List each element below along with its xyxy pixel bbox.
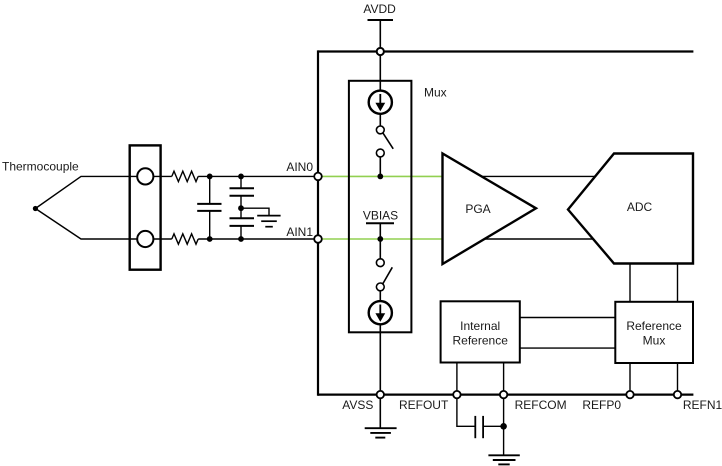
svg-text:REFN1: REFN1	[683, 398, 722, 412]
svg-text:AIN0: AIN0	[286, 160, 313, 174]
wire terminal to resistor R2	[153, 238, 171, 240]
wire AIN1 green (AIN1 pin to PGA input)	[320, 238, 443, 240]
wire ADC to Reference Mux left	[629, 264, 631, 303]
power symbol VBIAS	[366, 223, 394, 239]
svg-text:Mux: Mux	[424, 86, 447, 100]
wire top rail AVDD	[318, 50, 693, 52]
node thermocouple junction	[33, 206, 38, 211]
block Internal Reference	[441, 301, 520, 362]
svg-text:Mux: Mux	[643, 334, 666, 348]
wire REFCOM pin	[503, 363, 505, 395]
pin AVSS	[377, 391, 384, 398]
node R2/C1 junction	[207, 236, 213, 242]
svg-text:Reference: Reference	[453, 334, 509, 348]
wire PGA output bottom to ADC	[460, 238, 640, 240]
ground AVSS	[365, 428, 397, 437]
svg-text:ADC: ADC	[627, 200, 653, 214]
wire midpoint to ground	[241, 208, 269, 215]
svg-text:VBIAS: VBIAS	[363, 208, 398, 222]
svg-text:AIN1: AIN1	[286, 225, 313, 239]
ground filter midpoint	[257, 216, 280, 227]
current source I1 (burnout, top)	[369, 91, 392, 114]
current source I2 (burnout, bottom)	[369, 301, 392, 324]
label Internal Reference	[453, 319, 509, 348]
capacitor C3 (common-mode bottom)	[230, 208, 255, 239]
svg-text:REFP0: REFP0	[582, 398, 621, 412]
resistor R1 (AIN0 line)	[172, 171, 198, 181]
power symbol AVDD	[368, 20, 394, 91]
capacitor C1 (differential)	[197, 176, 221, 239]
svg-text:Reference: Reference	[626, 319, 682, 333]
wire R1 to AIN0 pin	[198, 175, 314, 177]
node VBIAS to AIN1	[377, 236, 383, 242]
wire REFP0 pin	[629, 363, 631, 395]
switch S1 (top)	[376, 114, 393, 177]
wire I2 to AVSS rail	[379, 324, 381, 394]
svg-text:PGA: PGA	[465, 202, 490, 216]
wire Internal Reference to Reference Mux bottom	[520, 347, 616, 349]
wire terminal to resistor R1	[153, 175, 171, 177]
node AVDD rail junction	[377, 48, 384, 55]
pin REFP0	[626, 391, 633, 398]
capacitor C2 (common-mode top)	[230, 176, 255, 208]
svg-text:Internal: Internal	[460, 319, 500, 333]
svg-text:Thermocouple: Thermocouple	[2, 160, 79, 174]
pin REFOUT	[453, 391, 460, 398]
connector block J1	[130, 145, 161, 269]
wire R2 to AIN1 pin	[198, 238, 314, 240]
connector terminal bottom	[137, 231, 153, 247]
wire chip left edge	[317, 50, 319, 395]
node C4/REFCOM junction	[500, 423, 507, 430]
wire Internal Reference to Reference Mux top	[520, 317, 616, 319]
resistor R2 (AIN1 line)	[172, 234, 198, 244]
pin AIN1	[314, 235, 322, 243]
wire REFCOM to ground	[503, 398, 505, 455]
wire REFOUT to bypass capacitor	[457, 398, 475, 426]
ADC block	[568, 154, 693, 264]
op-amp PGA	[443, 154, 537, 265]
switch S2 (bottom)	[376, 239, 392, 301]
node R1/C1 junction	[207, 174, 213, 180]
svg-text:AVDD: AVDD	[363, 2, 396, 16]
svg-text:AVSS: AVSS	[342, 398, 373, 412]
node switch S1 to AIN0	[377, 174, 383, 180]
connector terminal top	[137, 168, 153, 184]
wire AIN0 green (AIN0 pin to PGA input)	[320, 175, 443, 177]
wire thermocouple negative lead	[35, 209, 137, 240]
pin REFCOM	[500, 391, 507, 398]
mux box	[349, 81, 412, 332]
capacitor C4 (reference bypass)	[475, 416, 503, 438]
node C3 bottom junction	[238, 236, 244, 242]
wire bottom rail AVSS	[318, 394, 693, 396]
wire ADC to Reference Mux right	[677, 264, 679, 303]
pin AIN0	[314, 173, 322, 181]
wire thermocouple positive lead	[35, 176, 137, 208]
block Reference Mux	[615, 302, 693, 363]
wire REFOUT pin	[456, 363, 458, 395]
svg-text:REFOUT: REFOUT	[399, 398, 449, 412]
svg-text:REFCOM: REFCOM	[515, 398, 567, 412]
wire REFN1 pin	[677, 363, 679, 395]
ground REFCOM	[488, 455, 519, 464]
wire PGA output top to ADC	[460, 175, 640, 177]
pin REFN1	[674, 391, 681, 398]
node C2 top junction	[238, 174, 244, 180]
wire AVSS to ground	[379, 398, 381, 428]
node C2/C3 midpoint	[238, 205, 244, 211]
label Reference Mux	[626, 319, 682, 348]
